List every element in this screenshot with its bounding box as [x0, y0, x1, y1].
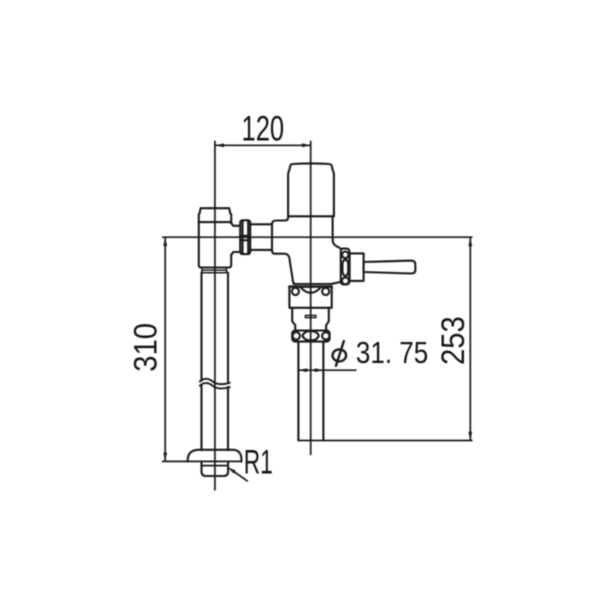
svg-text:R1: R1 — [244, 444, 273, 482]
svg-text:253: 253 — [435, 316, 472, 365]
svg-text:120: 120 — [241, 108, 284, 148]
svg-text:31. 75: 31. 75 — [356, 336, 428, 371]
svg-text:310: 310 — [127, 323, 164, 372]
